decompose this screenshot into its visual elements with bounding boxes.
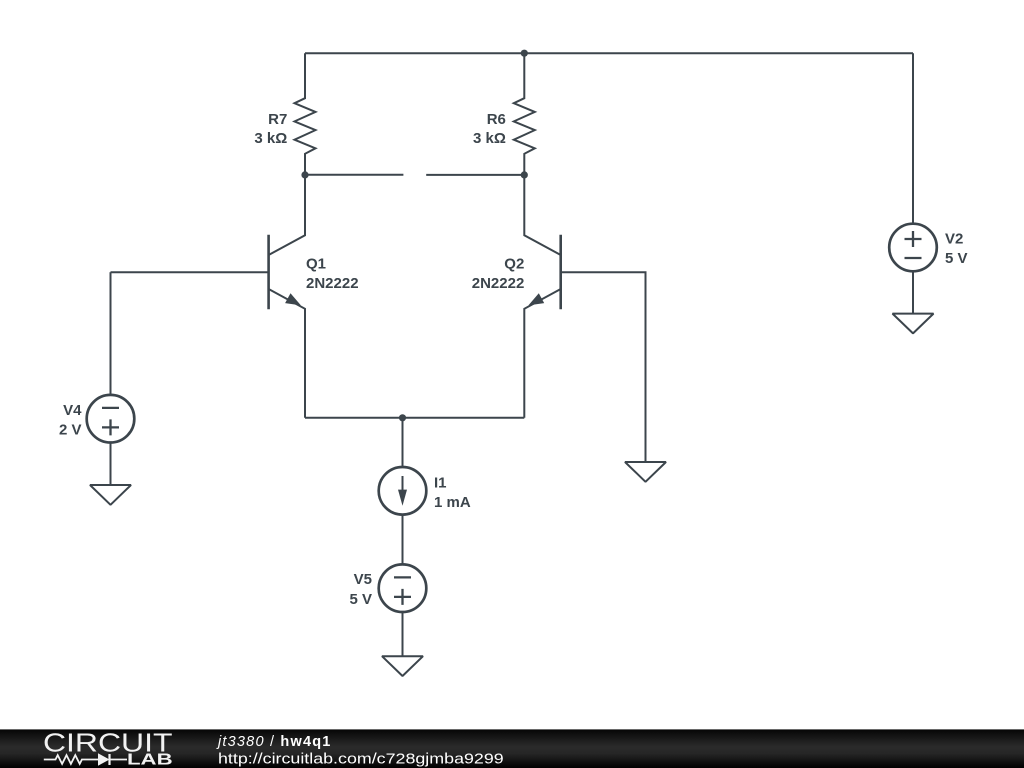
- svg-text:V2: V2: [945, 231, 963, 248]
- svg-text:2 V: 2 V: [59, 422, 82, 439]
- svg-text:3 kΩ: 3 kΩ: [473, 130, 506, 147]
- svg-text:Q1: Q1: [306, 255, 326, 272]
- svg-text:2N2222: 2N2222: [472, 275, 525, 292]
- svg-text:jt3380 / hw4q1: jt3380 / hw4q1: [216, 734, 332, 750]
- svg-text:3 kΩ: 3 kΩ: [254, 130, 287, 147]
- svg-text:R6: R6: [487, 111, 506, 128]
- svg-text:http://circuitlab.com/c728gjmb: http://circuitlab.com/c728gjmba9299: [218, 751, 504, 768]
- svg-text:R7: R7: [268, 111, 287, 128]
- svg-text:I1: I1: [434, 475, 447, 492]
- svg-text:5 V: 5 V: [945, 250, 968, 267]
- svg-text:LAB: LAB: [127, 752, 173, 768]
- svg-text:V4: V4: [63, 402, 82, 419]
- svg-text:5 V: 5 V: [349, 591, 372, 608]
- svg-text:1 mA: 1 mA: [434, 494, 471, 511]
- svg-text:2N2222: 2N2222: [306, 275, 359, 292]
- svg-text:V5: V5: [354, 571, 372, 588]
- svg-text:Q2: Q2: [504, 255, 524, 272]
